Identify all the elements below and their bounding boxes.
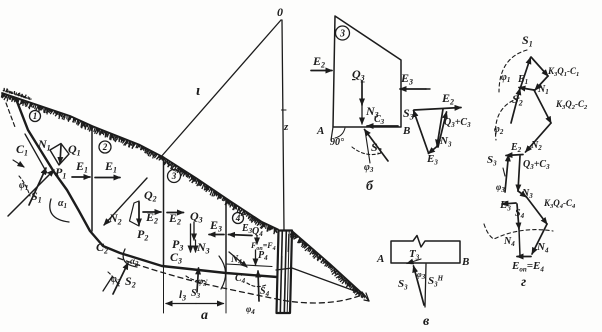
retaining wall inner line 3 [287, 231, 289, 313]
phi1 dashed arc [19, 176, 30, 196]
slip surface parallel bar (cohesion C1 line) [25, 134, 47, 173]
vector N1 chain [535, 76, 548, 90]
retaining wall body [277, 231, 293, 314]
svg-text:3: 3 [171, 171, 177, 181]
force parallelogram slice1 [50, 144, 69, 166]
phi3 dashed arc detail b [352, 147, 381, 155]
alpha1 arc [50, 199, 69, 222]
vector Q3+C3 triangle [437, 109, 443, 146]
vector K3Q2-C2 chain [534, 90, 551, 123]
vector E3 triangle [429, 146, 438, 154]
force arrow E3 left [209, 234, 224, 236]
phi2 dashed arc chain [495, 98, 519, 140]
force arrow S1 [29, 168, 46, 205]
ground surface line (left of wall) [2, 93, 278, 230]
vector E3 chain [502, 203, 516, 204]
force arrow Q3 main [193, 222, 195, 240]
slip circle dashed arc [118, 258, 362, 303]
dimension extension line left [163, 266, 165, 313]
force arrow S2 [113, 263, 128, 294]
dimension arrow right [196, 303, 224, 305]
slip surface polyline [16, 99, 277, 277]
svg-text:2: 2 [102, 142, 108, 152]
z tick [282, 109, 287, 111]
normal ref line detail b [365, 130, 370, 163]
svg-text:z: z [283, 121, 289, 133]
reaction arrow R1 [8, 170, 54, 216]
vector N2 chain [526, 123, 552, 152]
force arrow N3 detail b [361, 105, 363, 124]
thin line slice4 base upper [226, 264, 272, 267]
svg-text:Q3+C3: Q3+C3 [523, 159, 550, 171]
vector E2 chain [506, 155, 523, 156]
vector S1 chain [520, 58, 531, 90]
circled slice number 3 [168, 170, 181, 183]
svg-text:Eon=E4: Eon=E4 [511, 260, 544, 273]
force arrow P3 [190, 224, 192, 252]
alpha2 arc [123, 249, 137, 267]
force arrow P1 [60, 145, 61, 164]
vector K3Q1-C1 chain [531, 57, 548, 76]
E3 tail line detail b [426, 88, 430, 90]
vector Q3+C3 chain [518, 156, 520, 191]
ground surface hatching (right of wall) [290, 231, 364, 298]
svg-text:в: в [423, 314, 430, 329]
svg-text:B: B [461, 256, 469, 268]
left vertical N4 chain [519, 229, 520, 256]
phi1 dashed arc chain [499, 50, 527, 92]
phi4 dashed arc chain [484, 224, 553, 239]
triangle right line detail v [425, 264, 426, 307]
force arrow Q4 [256, 236, 258, 244]
force arrow E3 detail b [400, 88, 426, 90]
vector N4 chain [532, 224, 547, 254]
normal arrow N2 [104, 178, 147, 225]
force arrow E2 right [167, 212, 184, 214]
slip exit line under wall [276, 268, 363, 294]
vector N3 triangle [438, 112, 447, 147]
svg-text:4: 4 [235, 213, 241, 223]
90 arc detail b [335, 128, 345, 138]
rectangle detail v [391, 236, 460, 264]
slice boundary 2-3 [163, 157, 165, 266]
force arrow C3 detail b [367, 125, 398, 127]
pentagon outline detail b [333, 16, 401, 127]
vector Eop chain [517, 256, 531, 258]
toe tick [362, 292, 369, 301]
circled 3 detail b [336, 26, 350, 40]
dimension extension line right [225, 273, 227, 313]
tick arrow near C1 [13, 160, 24, 167]
vector K3Q4-C4 chain [527, 197, 548, 224]
svg-text:Q3+C3: Q3+C3 [444, 117, 471, 129]
crest blob [3, 88, 32, 99]
phi3 dashed arc slice3 [186, 276, 207, 281]
force arrow P2 [138, 202, 140, 225]
circled slice number 2 [99, 141, 111, 153]
force arrow E1 right [95, 177, 120, 179]
force arrow E3 right [229, 235, 253, 236]
retaining wall inner line 2 [284, 231, 286, 313]
retaining wall inner line 1 [280, 231, 282, 313]
ground surface line (right of wall) [292, 231, 365, 296]
phi2 dashed arc slice2 [108, 272, 119, 286]
slice boundary 3-4 [225, 199, 227, 274]
force arrow S3 detail b [365, 130, 389, 162]
vector S3 triangle [414, 111, 429, 154]
phi2 slash line [103, 277, 112, 291]
force arrow E1 left [72, 176, 90, 178]
circled slice number 1 [30, 111, 41, 122]
force arrow E2 detail b [311, 70, 332, 72]
normal arrow N4 [229, 252, 247, 267]
force arrow S4 main [258, 271, 259, 301]
svg-text:A: A [316, 125, 324, 137]
triangle left line detail v [414, 266, 425, 305]
vector E1 chain [519, 88, 534, 91]
z line from O to wall [282, 20, 284, 230]
phi3 tick chain [503, 168, 505, 176]
S3 cluster arrow slice3 [197, 268, 199, 292]
circled slice number 4 [233, 213, 244, 224]
force parallelogram slice2 [130, 201, 140, 226]
force arrow E2 left [143, 211, 161, 213]
slice boundary 1-2 [91, 126, 93, 231]
dashed slip continuation top-left [6, 103, 15, 127]
svg-text:0: 0 [277, 5, 283, 19]
svg-text:B: B [402, 125, 410, 137]
phi4 dashed arc slice4 [247, 283, 266, 287]
retaining wall shading [278, 234, 288, 296]
vector S3 chain [505, 155, 509, 192]
svg-text:б: б [366, 179, 374, 194]
radius ray from O [160, 20, 281, 158]
svg-text:1: 1 [33, 111, 38, 121]
left tick below A [331, 127, 333, 140]
alpha4 arc curl [219, 256, 226, 289]
dimension arrow left [166, 303, 196, 305]
vector N3 chain [518, 191, 527, 197]
svg-text:90°: 90° [330, 137, 344, 148]
svg-text:A: A [376, 253, 384, 265]
vector E2 triangle [414, 108, 461, 111]
svg-text:а: а [201, 308, 208, 323]
force arrow N3 main [195, 240, 197, 252]
vector S2 chain [511, 89, 520, 124]
vector S4 chain [517, 204, 519, 229]
T3 small arrow [407, 259, 421, 264]
ground surface hatching (left of wall) [1, 93, 277, 234]
svg-text:3: 3 [339, 29, 345, 40]
force arrow Q3 detail b [361, 81, 363, 105]
svg-text:г: г [521, 275, 526, 290]
svg-text:ι: ι [196, 83, 200, 99]
force arrow P4 [255, 250, 257, 265]
